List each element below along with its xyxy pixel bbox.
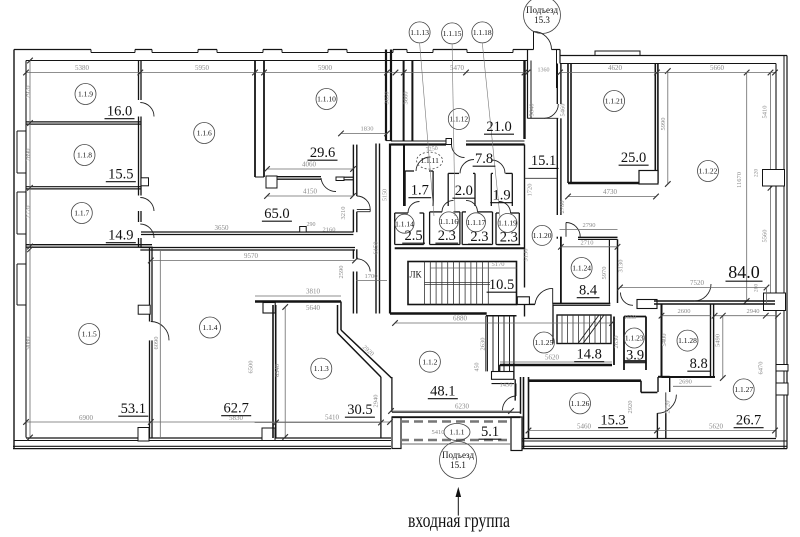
dim text 4150 xyxy=(267,195,353,197)
dim text 5620 stairs xyxy=(500,361,612,363)
svg-text:65.0: 65.0 xyxy=(264,206,289,222)
svg-text:2710: 2710 xyxy=(581,240,594,247)
room circle 1.1.21 xyxy=(604,91,625,112)
room circle 1.1.23 xyxy=(624,328,644,348)
svg-text:1550: 1550 xyxy=(624,315,636,321)
room circle 1.1.12 xyxy=(448,109,469,130)
wall 1.1.21 bottom xyxy=(568,182,639,184)
svg-text:1.1.1: 1.1.1 xyxy=(450,428,465,437)
wall top of 1.1.26 xyxy=(529,379,642,382)
wall inner left xyxy=(25,61,27,438)
svg-text:5400: 5400 xyxy=(661,334,668,347)
door 1.1.12 arc xyxy=(452,145,465,158)
svg-text:4060: 4060 xyxy=(302,161,317,169)
svg-text:2630: 2630 xyxy=(480,338,487,351)
wall 1.1.28 bottom xyxy=(662,376,716,378)
wall 1.1.12 left xyxy=(403,61,405,142)
svg-text:1.1.5: 1.1.5 xyxy=(82,330,97,339)
wall segment above flight xyxy=(486,315,517,317)
wall top of 1.1.28 and 1.1.27 xyxy=(654,300,775,302)
svg-text:5460: 5460 xyxy=(577,423,592,431)
window left wall xyxy=(17,130,26,132)
room circle 1.1.22 xyxy=(698,161,719,182)
room circle 1.1.6 xyxy=(194,123,215,144)
room circle 1.1.2 xyxy=(419,351,440,372)
svg-text:1.1.8: 1.1.8 xyxy=(77,151,92,160)
dim text 2940 xyxy=(715,315,778,317)
wall bottom of 1.1.2 xyxy=(392,411,521,413)
svg-text:2720: 2720 xyxy=(665,401,672,414)
svg-text:6150: 6150 xyxy=(373,242,380,255)
door 1.1.28 arc xyxy=(694,284,711,301)
svg-text:2630: 2630 xyxy=(613,336,620,349)
door 1.7 arc xyxy=(416,157,431,171)
svg-text:2890: 2890 xyxy=(25,149,32,162)
svg-text:5.1: 5.1 xyxy=(481,424,499,440)
wall between 1.1.8 and 1.1.7 xyxy=(26,186,141,188)
door 1.1.26-1.1.27 leaf and arc xyxy=(665,392,667,413)
wall band below 1.1.28 xyxy=(657,377,659,392)
door top entry leaf xyxy=(533,32,535,50)
svg-text:15.5: 15.5 xyxy=(108,167,133,183)
dim text 9570 xyxy=(151,260,355,262)
dim text 4730 xyxy=(568,196,656,198)
wall between 1.1.5 and 1.1.4 xyxy=(149,247,151,322)
wall bottom left section xyxy=(26,437,391,439)
dim line left lower xyxy=(29,249,31,437)
svg-text:15.3: 15.3 xyxy=(534,15,550,25)
wall left of 1.1.25 flight xyxy=(552,304,554,343)
door 1.1.16 arc xyxy=(442,200,454,212)
wall 1.1.24 top xyxy=(578,236,618,238)
svg-text:1.1.6: 1.1.6 xyxy=(197,129,212,138)
room circle 1.1.18 xyxy=(472,22,493,43)
svg-text:5640: 5640 xyxy=(306,304,321,312)
entrance canopy dashed top xyxy=(400,420,511,423)
wall outer left xyxy=(13,50,15,449)
wall bottom of room 1.1.6 lower line xyxy=(140,247,355,249)
lower stair landing xyxy=(492,372,514,380)
svg-text:1.1.26: 1.1.26 xyxy=(571,399,590,408)
svg-text:6540: 6540 xyxy=(274,364,281,377)
door 2.0 arc xyxy=(460,159,474,173)
wall below door to bottom xyxy=(656,413,658,438)
svg-text:1360: 1360 xyxy=(538,68,550,74)
svg-text:1.1.13: 1.1.13 xyxy=(410,28,429,37)
room circle 1.1.28 xyxy=(677,330,698,351)
wall 1.1.24 right xyxy=(608,239,610,303)
svg-text:5460: 5460 xyxy=(560,104,567,117)
door 1.1.14 arc xyxy=(408,202,420,214)
svg-text:450: 450 xyxy=(475,363,481,372)
svg-text:1.1.19: 1.1.19 xyxy=(498,219,517,228)
wall 1.1.12 bottom xyxy=(391,140,446,142)
svg-text:29.6: 29.6 xyxy=(310,145,335,161)
svg-text:1.1.7: 1.1.7 xyxy=(74,209,89,218)
svg-text:21.0: 21.0 xyxy=(486,119,511,135)
vertical dim 6090 xyxy=(159,251,161,437)
room circle 1.1.8 xyxy=(74,145,95,166)
niche right wall 1 xyxy=(776,365,788,372)
svg-text:7.8: 7.8 xyxy=(475,151,493,167)
door 1.9 arc xyxy=(491,160,505,173)
svg-text:2790: 2790 xyxy=(583,222,596,229)
svg-text:2940: 2940 xyxy=(747,308,760,315)
stair box 10.5 xyxy=(408,262,517,305)
leader line 1.1.18 xyxy=(482,43,500,217)
pilaster bottom 1 xyxy=(138,428,149,442)
wall 1.1.21 left xyxy=(567,64,569,184)
svg-text:1430: 1430 xyxy=(500,382,513,389)
entrance corridor edge lines xyxy=(400,417,511,419)
wall shaft right side xyxy=(375,144,377,314)
svg-text:5560: 5560 xyxy=(762,230,769,243)
svg-text:1.1.3: 1.1.3 xyxy=(314,364,329,373)
svg-text:2690: 2690 xyxy=(679,378,692,385)
wall 1.1.25 bottom xyxy=(500,364,612,367)
svg-text:1.1.25: 1.1.25 xyxy=(535,338,554,347)
pilaster on wall 1.1.8 xyxy=(141,178,149,186)
svg-text:5150: 5150 xyxy=(383,189,389,201)
svg-text:14.9: 14.9 xyxy=(108,228,133,244)
diagonal wall 1.1.3 xyxy=(341,330,392,378)
room circle 1.1.4 xyxy=(200,317,221,338)
svg-text:1.1.24: 1.1.24 xyxy=(572,264,591,273)
svg-text:3660: 3660 xyxy=(403,92,410,105)
svg-text:2920: 2920 xyxy=(627,401,634,414)
svg-text:Подъезд: Подъезд xyxy=(442,450,474,460)
svg-text:2160: 2160 xyxy=(323,227,336,234)
window left wall xyxy=(17,263,26,265)
svg-text:11670: 11670 xyxy=(736,172,743,188)
corridor right wall upper xyxy=(556,64,558,105)
wall 1.1.28 left xyxy=(661,304,663,377)
corridor wall below door xyxy=(556,237,558,239)
svg-text:4620: 4620 xyxy=(608,64,623,72)
dim line left chain xyxy=(29,61,31,247)
door 1.1.7 arc xyxy=(140,224,154,238)
corridor cross line 15.1 xyxy=(525,177,558,179)
wall 1.1.24 left xyxy=(560,237,562,303)
room circle 1.1.5 xyxy=(79,324,100,345)
lower stair flight treads xyxy=(487,316,489,372)
svg-text:2.5: 2.5 xyxy=(405,228,423,244)
svg-text:1.1.15: 1.1.15 xyxy=(443,29,462,38)
niche right wall 2 xyxy=(776,383,788,395)
door 1.1.9 arc xyxy=(140,103,154,117)
jamb right of door xyxy=(336,177,344,181)
svg-text:2.3: 2.3 xyxy=(470,229,488,245)
wall 1.1.3 right vertical xyxy=(380,377,382,438)
svg-text:1.1.2: 1.1.2 xyxy=(422,357,437,366)
small rooms block left wall xyxy=(403,145,405,207)
svg-text:1.1.18: 1.1.18 xyxy=(473,28,492,37)
wall left of stair box xyxy=(389,144,391,314)
chimney block right 2 xyxy=(764,293,786,311)
dim text 6880 xyxy=(395,322,612,324)
room circle 1.1.9 xyxy=(75,84,96,105)
entry arrow xyxy=(457,495,459,516)
row2 room 1.1.17 box xyxy=(461,212,463,245)
wall outer top-right section xyxy=(560,55,787,57)
wall notch 290 xyxy=(300,227,307,233)
dim line 2710 xyxy=(561,246,618,248)
svg-text:6500: 6500 xyxy=(248,361,255,374)
svg-text:2.3: 2.3 xyxy=(438,228,456,244)
door 1.1.10 arc xyxy=(321,178,336,192)
svg-text:1.1.23: 1.1.23 xyxy=(625,334,644,343)
dim line 5990 xyxy=(667,71,669,184)
pilaster bottom 2 xyxy=(262,428,275,441)
leader line 1.1.15 xyxy=(452,44,455,216)
wall right of landing xyxy=(514,379,516,400)
svg-text:1720: 1720 xyxy=(527,184,534,197)
wall between 1.1.6 and 1.1.10 xyxy=(254,61,256,178)
wall right inner xyxy=(775,64,777,438)
svg-text:9080: 9080 xyxy=(25,337,32,350)
svg-text:3130: 3130 xyxy=(618,260,625,273)
svg-text:1700: 1700 xyxy=(365,273,378,280)
small rooms block bottom wall xyxy=(395,247,525,249)
svg-text:2780: 2780 xyxy=(559,201,566,214)
door 1.1.2 bottom right arc xyxy=(502,396,516,410)
svg-text:2590: 2590 xyxy=(338,266,345,279)
dim line bottom left chain xyxy=(26,421,390,423)
svg-text:5380: 5380 xyxy=(75,64,90,72)
wall 1.1.10 right thick xyxy=(385,50,387,141)
row2 room 1.1.19 box xyxy=(495,213,497,245)
svg-text:1.1.12: 1.1.12 xyxy=(449,115,468,124)
stair break diagonal xyxy=(578,315,599,344)
svg-text:15.1: 15.1 xyxy=(450,460,466,470)
wall 1.1.26 left xyxy=(523,377,525,448)
wall below stair box xyxy=(390,312,487,315)
svg-text:26.7: 26.7 xyxy=(736,413,761,429)
wall 1.1.23 box xyxy=(613,317,615,366)
row2 room 1.1.16 box xyxy=(429,212,431,245)
svg-text:3210: 3210 xyxy=(340,207,347,220)
svg-text:2970: 2970 xyxy=(25,86,32,99)
wall between 1.1.9 and 1.1.8 xyxy=(26,121,141,123)
svg-text:1.1.28: 1.1.28 xyxy=(678,336,697,345)
svg-text:1.7: 1.7 xyxy=(411,183,429,199)
svg-text:5900: 5900 xyxy=(318,64,333,72)
room circle 1.1.10 xyxy=(316,89,337,110)
svg-text:2.0: 2.0 xyxy=(455,183,473,199)
svg-text:5950: 5950 xyxy=(195,64,210,72)
room circle 1.1.20 xyxy=(532,225,552,245)
wall top of 1.1.3 xyxy=(255,300,341,303)
stair mid stringer xyxy=(425,282,491,284)
svg-text:5990: 5990 xyxy=(660,118,667,131)
svg-text:5410: 5410 xyxy=(762,106,769,119)
dim line 11670 xyxy=(746,73,748,302)
door top entry arc xyxy=(534,32,552,50)
svg-text:Подъезд: Подъезд xyxy=(526,5,558,15)
wall stub right of stair box xyxy=(517,303,536,305)
circle Podezd 15.1 xyxy=(440,442,477,479)
svg-text:2940: 2940 xyxy=(373,395,380,408)
svg-text:16.0: 16.0 xyxy=(107,104,132,120)
svg-text:1.1.10: 1.1.10 xyxy=(317,95,336,104)
svg-text:5620: 5620 xyxy=(545,354,560,362)
svg-text:5410: 5410 xyxy=(432,429,445,436)
svg-text:6900: 6900 xyxy=(79,414,94,422)
wall inner top-left line xyxy=(26,60,528,62)
wall 1.1.12 right xyxy=(523,61,525,140)
room circle 1.1.24 xyxy=(571,258,592,279)
entrance pier right xyxy=(511,417,522,451)
svg-text:290: 290 xyxy=(307,222,316,228)
door arc in shaft lower xyxy=(357,259,370,272)
svg-text:5640: 5640 xyxy=(529,104,536,117)
svg-text:62.7: 62.7 xyxy=(224,401,249,417)
svg-text:1.1.21: 1.1.21 xyxy=(605,97,624,106)
door 84.0 to corridor arc xyxy=(620,293,633,306)
svg-text:3.9: 3.9 xyxy=(626,348,644,364)
window left wall xyxy=(17,191,26,193)
svg-text:6470: 6470 xyxy=(758,362,765,375)
svg-text:1.1.20: 1.1.20 xyxy=(533,231,552,240)
vestibule top walls xyxy=(527,50,529,119)
stair flight 1.1.25 box xyxy=(557,315,611,344)
svg-text:5410: 5410 xyxy=(325,414,340,422)
door 1.1.24 leaf and arc xyxy=(565,223,567,237)
room circle 1.1.7 xyxy=(71,203,92,224)
svg-text:1.1.9: 1.1.9 xyxy=(78,90,93,99)
wall 1.1.10 bottom xyxy=(273,176,321,178)
wall between 1.1.4 and 1.1.3 xyxy=(272,305,274,438)
room 1.7 walls xyxy=(404,171,406,206)
svg-text:1.1.22: 1.1.22 xyxy=(699,167,718,176)
svg-text:8.8: 8.8 xyxy=(690,356,708,372)
room circle 1.1.13 xyxy=(409,22,430,43)
svg-text:1.9: 1.9 xyxy=(493,188,511,204)
door arc in shaft upper xyxy=(357,196,370,210)
wall below W5 with door xyxy=(352,249,354,258)
pier block left of W11 xyxy=(637,300,657,309)
wall 1.1.24 bottom xyxy=(553,302,610,304)
dim text 5170 xyxy=(430,267,517,269)
svg-text:6090: 6090 xyxy=(153,337,160,350)
svg-text:84.0: 84.0 xyxy=(728,262,760,282)
room circle 1.1.27 xyxy=(733,379,754,400)
corridor 1.1.20 left wall xyxy=(524,145,526,288)
svg-text:3810: 3810 xyxy=(306,288,321,296)
wall vertical 1.1.9/1.1.8/1.1.7 vs 1.1.6 xyxy=(138,61,140,101)
svg-text:48.1: 48.1 xyxy=(430,384,455,400)
svg-text:1.1.4: 1.1.4 xyxy=(203,323,218,332)
svg-text:4150: 4150 xyxy=(303,188,318,196)
wall outer top-left section xyxy=(14,49,91,51)
svg-text:9570: 9570 xyxy=(244,252,259,260)
wall between 1.1.7 and 1.1.5 xyxy=(26,244,152,246)
svg-text:53.1: 53.1 xyxy=(121,401,146,417)
room 2.0 walls xyxy=(447,173,449,206)
svg-text:5620: 5620 xyxy=(709,423,724,431)
svg-text:30.5: 30.5 xyxy=(347,402,372,418)
svg-text:1.1.17: 1.1.17 xyxy=(467,218,486,227)
block at 1.1.21 bottom right xyxy=(639,171,658,185)
entrance pier left xyxy=(392,417,401,449)
wall 1.1.28 right xyxy=(710,304,712,377)
stair treads 1.1.25 xyxy=(561,315,563,344)
svg-text:8.4: 8.4 xyxy=(579,283,598,299)
pilaster on wall 1.1.5 xyxy=(138,305,150,314)
svg-text:1.1.27: 1.1.27 xyxy=(734,385,753,394)
svg-text:14.8: 14.8 xyxy=(577,347,602,363)
door 1.1.5 arc xyxy=(151,322,169,341)
door corridor to hall arc xyxy=(544,117,558,119)
wall bottom of room 1.1.6 upper line xyxy=(141,231,353,233)
svg-text:2.3: 2.3 xyxy=(500,230,518,246)
door 1.1.8 arc xyxy=(140,198,154,212)
wall 1.1.21 right xyxy=(654,64,656,184)
svg-text:входная группа: входная группа xyxy=(408,510,510,532)
wall right of 1.1.6 xyxy=(352,145,354,196)
svg-text:25.0: 25.0 xyxy=(621,150,646,166)
entrance canopy dashed bottom xyxy=(400,439,511,442)
svg-text:1.1.14: 1.1.14 xyxy=(395,219,414,228)
room circle 1.1.3 xyxy=(311,358,332,379)
dim text 7520 xyxy=(620,287,767,289)
svg-text:5130: 5130 xyxy=(523,249,530,262)
stair treads 10.5 xyxy=(424,262,426,305)
chimney block right 1 xyxy=(763,170,785,187)
lower stair flight left edge xyxy=(485,316,487,372)
balcony block top-right xyxy=(595,51,640,56)
svg-text:4730: 4730 xyxy=(603,188,618,196)
svg-text:15.1: 15.1 xyxy=(531,153,556,169)
svg-text:6880: 6880 xyxy=(453,315,468,323)
room circle 1.1.15 xyxy=(442,23,463,44)
room circle 1.1.26 xyxy=(570,393,591,414)
room circle 1.1.25 xyxy=(533,332,554,353)
svg-text:6230: 6230 xyxy=(455,403,470,411)
svg-text:5970: 5970 xyxy=(601,267,608,280)
room ellipse 1.1.1 xyxy=(444,424,470,441)
wall right outer xyxy=(786,56,788,449)
lower stair flight right wall xyxy=(513,316,515,380)
door corridor to stairs arc xyxy=(535,288,553,304)
leader line 1.1.13 xyxy=(420,43,434,216)
door 1.1.17 arc xyxy=(466,200,478,212)
svg-text:2600: 2600 xyxy=(678,308,691,315)
row2 room 1.1.14 box xyxy=(394,213,396,245)
door 1.1.19 arc xyxy=(499,202,511,214)
room ellipse 1.1.11 dashed xyxy=(417,152,443,169)
svg-text:10.5: 10.5 xyxy=(489,277,514,293)
svg-text:15.3: 15.3 xyxy=(600,413,625,429)
svg-text:5490: 5490 xyxy=(715,334,722,347)
dim line right margin inner xyxy=(770,73,772,302)
svg-text:5660: 5660 xyxy=(710,64,725,72)
dim line 6540 xyxy=(284,307,286,437)
room 1.9 walls xyxy=(490,173,492,206)
svg-text:5170: 5170 xyxy=(492,261,505,268)
svg-text:2770: 2770 xyxy=(25,206,32,219)
svg-text:220: 220 xyxy=(754,169,760,178)
svg-text:1830: 1830 xyxy=(361,126,374,133)
svg-text:ЛК: ЛК xyxy=(409,270,422,280)
svg-text:7520: 7520 xyxy=(690,279,705,287)
wall bottom right section xyxy=(522,438,776,440)
vestibule inner door line xyxy=(528,117,545,119)
dim text 3810 xyxy=(255,295,341,297)
svg-text:3650: 3650 xyxy=(384,92,391,105)
svg-text:3650: 3650 xyxy=(215,224,230,232)
dim line bottom right chain xyxy=(529,430,776,432)
